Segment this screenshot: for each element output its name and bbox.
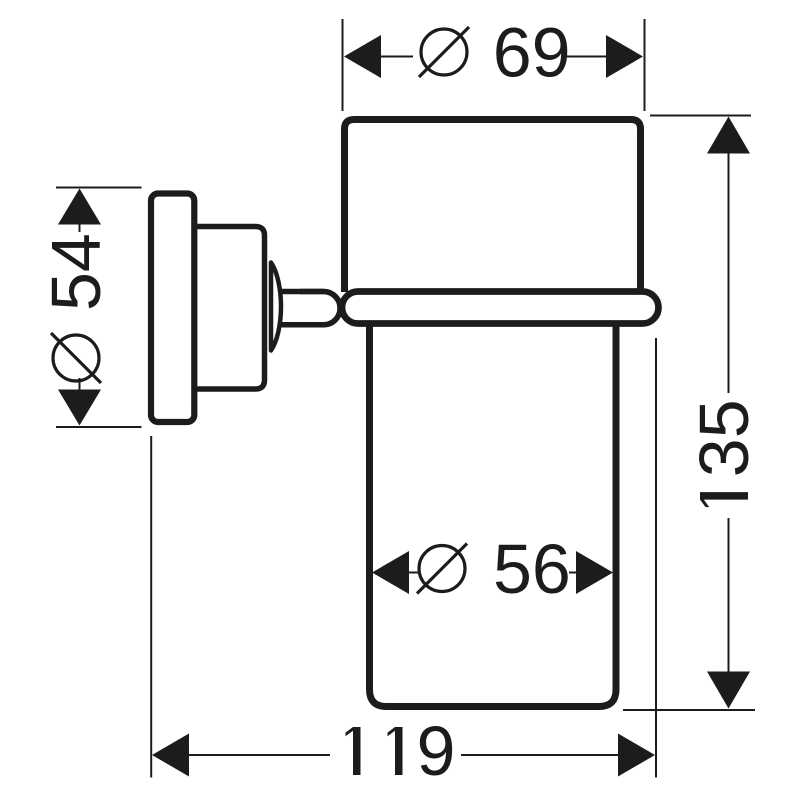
ext line 135 top (650, 115, 751, 117)
wall plate (151, 194, 194, 423)
label d56 (417, 530, 571, 608)
cup lower body (370, 325, 617, 707)
svg-text:54: 54 (37, 233, 115, 311)
ext line 119 left (150, 436, 152, 778)
arrow d54 top (58, 189, 101, 225)
ext line 119 right (655, 338, 657, 778)
label d69 (419, 14, 571, 92)
svg-text:69: 69 (493, 14, 571, 92)
dim line 135 lower (728, 518, 730, 672)
arrow 135 bottom (707, 672, 750, 709)
arrow d56 right (576, 551, 613, 594)
label d54 rotated (37, 233, 115, 383)
cup upper body (345, 120, 641, 293)
dim line 135 upper (728, 154, 730, 394)
ext line d54 bottom (56, 426, 142, 428)
dim line d69 left (379, 56, 413, 58)
arrow d69 right (606, 35, 643, 78)
ext line d54 top (56, 187, 142, 189)
dim line d69 right (567, 56, 608, 58)
svg-text:56: 56 (493, 530, 571, 608)
dim line 119 right (461, 754, 618, 756)
arrow d54 bottom (58, 390, 101, 426)
dim stub d54 top (79, 224, 81, 232)
dim line 119 left (189, 754, 330, 756)
dim line d56 right (569, 572, 576, 574)
cone lens (271, 263, 281, 351)
label 135 rotated (685, 399, 763, 507)
arrow d56 left (372, 551, 409, 594)
holder ring (342, 292, 659, 324)
svg-text:9: 9 (417, 712, 456, 790)
dim ext line top-right (644, 19, 646, 111)
arrow 135 top (707, 117, 750, 154)
ext line 135 bottom (623, 709, 755, 711)
stem cap restroke (300, 292, 340, 325)
label 119 digit 1 (388, 727, 403, 775)
arrow 119 right (618, 734, 655, 777)
dim line d56 left (409, 572, 419, 574)
dim ext line top-left (342, 19, 344, 111)
dim stub d54 bottom (79, 378, 81, 390)
label 119 digit 1 (346, 727, 361, 775)
mount body (195, 227, 265, 390)
svg-text:35: 35 (685, 399, 763, 477)
arrow d69 left (344, 35, 381, 78)
arrow 119 left (152, 734, 189, 777)
stem (279, 292, 340, 325)
